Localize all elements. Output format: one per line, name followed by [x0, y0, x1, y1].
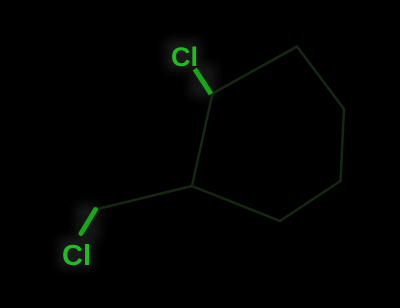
svg-text:Cl: Cl	[62, 240, 91, 272]
jpeg halo around bottom Cl label and bond	[59, 204, 100, 268]
bond C2-CH2 (faint, ring to methylene)	[96, 186, 193, 210]
bond C1-Cl (bright green, ring to top chlorine)	[195, 69, 211, 94]
bond CH2-Cl (bright green, methylene to bottom chlorine)	[81, 210, 96, 234]
jpeg halo around top Cl label and bond	[166, 40, 216, 98]
svg-text:Cl: Cl	[171, 42, 198, 72]
benzene ring (faint dark green hexagon)	[192, 47, 344, 222]
